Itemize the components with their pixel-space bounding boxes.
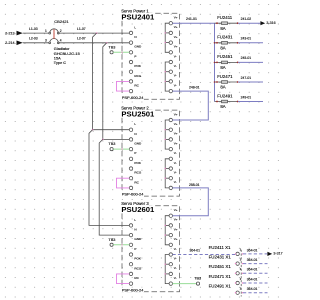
svg-text:N: N [134,228,136,232]
svg-text:2-213: 2-213 [5,31,14,35]
PSU2601 V- tie junctions [165,264,166,275]
svg-text:PSU2401: PSU2401 [121,13,155,22]
PSU2601 V+ tie junctions [165,225,166,236]
svg-text:8A: 8A [220,85,225,90]
PSU2401 pin V+ (4) [169,45,178,54]
circuit breaker CB2421 [49,19,70,43]
svg-text:POK: POK [134,64,141,68]
svg-text:FU2451 X1: FU2451 X1 [209,264,232,269]
svg-text:364-01: 364-01 [247,287,258,291]
PSU2501 pin V+ (2) [169,122,178,131]
svg-text:243-01: 243-01 [241,37,252,41]
wire 364-01 from FU2491 X1 [243,287,268,293]
PSU2601 pin V- (1) [169,247,177,256]
PSU2601 pin V- (4) [169,276,177,285]
node 2-214 source arrow [5,41,23,46]
fuse FU2411 8A [215,15,239,31]
svg-text:364-01: 364-01 [247,258,258,262]
terminal FU2471 X1 right connection point [242,282,243,283]
svg-text:V-: V- [174,247,177,251]
svg-text:CB2421: CB2421 [54,19,69,24]
value label PSP-600-24 [121,95,144,100]
svg-text:8A: 8A [220,65,225,70]
svg-text:FU2451: FU2451 [217,54,233,59]
svg-text:248-01: 248-01 [189,86,200,90]
FU2451 right terminal [237,62,239,64]
FU2431 left terminal [216,42,218,44]
PSU2501 V+ tie junctions [165,129,166,140]
svg-text:PSP-600-24: PSP-600-24 [122,95,145,100]
terminal strip X1 rail (dashed) [240,250,242,297]
terminal FU2451 X1 [209,264,242,275]
svg-text:FU2431: FU2431 [217,35,233,40]
wire 364-01 from FU2411 X1 [243,248,267,254]
jumper RCG to RC (PSU2601, magenta) [117,274,130,284]
terminal FU2411 X1 left connection point [235,253,236,254]
PSU2501 pin V- (4) [169,180,177,189]
wire 243-01 [238,37,263,43]
svg-text:V+: V+ [174,237,178,241]
svg-text:FU2431 X1: FU2431 X1 [209,255,232,260]
svg-text:PSP-600-24: PSP-600-24 [122,287,145,292]
wire PSU2601 V- to TB3 (green) [173,283,197,285]
svg-text:258-01: 258-01 [189,183,200,187]
svg-text:RC: RC [134,276,139,280]
breaker mechanical tie (red) [53,29,55,39]
svg-text:FU2491: FU2491 [217,93,233,98]
svg-text:V+: V+ [174,35,178,39]
wire L2 jog down to PSU2601 N [99,139,129,235]
svg-text:L2-07: L2-07 [77,37,86,41]
PSU2401 V- tie bus [165,62,169,91]
PSU2501 pin V- (3) [169,171,177,180]
terminal FU2431 X1 [209,255,242,266]
PSU2401 pin V- (2) [169,64,177,73]
PSU2401 pin V+ (2) [169,25,178,34]
junction green wire at enclosure [121,148,122,149]
FU2411 right terminal [237,22,239,24]
svg-text:P: P [134,151,136,155]
terminal FU2431 X1 left connection point [235,263,236,264]
svg-text:L: L [134,25,136,29]
terminal FU2491 X1 [209,284,242,295]
svg-text:364-01: 364-01 [247,277,258,281]
junction bus at FU2471 [214,81,216,83]
terminal FU2491 X1 right connection point [242,292,243,293]
PSU2401 pin V- (3) [169,74,177,83]
terminal FU2431 X1 right connection point [242,263,243,264]
PSU2601 pin V+ (2) [169,218,178,227]
wire TB3 to PSU2501 GND (green) [113,148,129,150]
terminal FU2411 X1 [209,245,242,256]
PSU2601 pin L [129,218,136,227]
svg-text:V+: V+ [174,16,178,20]
node 3-317 destination arrow [267,252,282,256]
svg-text:V+: V+ [174,112,178,116]
svg-text:L2-03: L2-03 [29,37,38,41]
svg-text:245-01: 245-01 [241,56,252,60]
PSU2401 pin RC [129,84,139,93]
terminal FU2451 X1 right connection point [242,273,243,274]
svg-text:364-01: 364-01 [247,268,258,272]
wire L1 vertical drop to PSU2501 [93,33,97,130]
FU2411 left terminal [216,22,218,24]
fuse supply bus [214,23,216,101]
fuse FU2471 8A [215,74,239,90]
PSU2601 pin V+ (3) [169,227,178,236]
PSU2601 pin V- (2) [169,257,177,266]
svg-text:V-: V- [174,266,177,270]
wire 364-01 from FU2431 X1 [243,258,268,264]
svg-text:FU2411 X1: FU2411 X1 [209,245,231,250]
svg-text:PSP-600-24: PSP-600-24 [122,192,145,197]
svg-text:241-01: 241-01 [186,17,197,21]
junction L2 branch [106,42,108,44]
svg-text:364-01: 364-01 [247,248,258,252]
PSU2601 pin RCG [129,266,142,275]
svg-text:V+: V+ [174,227,178,231]
svg-text:2: 2 [60,29,62,33]
svg-text:N: N [134,132,136,136]
wire L2-07 [58,37,129,43]
wire TB3 to PSU2401 GND (green) [113,51,129,53]
svg-text:V-: V- [174,74,177,78]
svg-text:V+: V+ [174,208,178,212]
PSU2501 pin RC [129,180,139,189]
PSU2501 pin V- (2) [169,161,177,170]
svg-text:RC: RC [134,180,139,184]
svg-text:L: L [134,122,136,126]
svg-text:364-01: 364-01 [190,249,201,253]
PSU2401 pin V+ (1) [169,16,178,25]
PSU2601 pin GND [129,237,142,246]
terminal FU2471 X1 left connection point [235,282,236,283]
svg-text:N: N [134,35,136,39]
PSU2501 pin RCG [129,171,142,180]
node 3-316 destination arrow [260,21,275,25]
svg-text:Type C: Type C [54,60,67,65]
terminal FU2411 X1 right connection point [242,253,243,254]
svg-text:V+: V+ [174,132,178,136]
power supply unit PSU2501 dashed enclosure [122,110,180,196]
wire 258-01 PSU2501 V- to PSU2601 V+ [173,183,209,216]
svg-text:4: 4 [60,39,62,43]
wire L1 branch to PSU2501 L [93,129,130,131]
PSU2501 pin N [129,132,136,141]
svg-text:TB3: TB3 [108,142,115,146]
fuse FU2451 8A [215,54,239,70]
junction L1 at PSU2501 [92,129,94,131]
FU2431 right terminal [237,42,239,44]
junction bus at FU2451 [214,62,216,64]
svg-text:V-: V- [174,257,177,261]
junction L1 branch [96,32,98,34]
svg-text:249-01: 249-01 [241,95,252,99]
terminal TB3 (PSU2601) [108,238,115,247]
PSU2501 pin GND [129,142,142,151]
breaker value label Gladiator GHCBU-2C-15 15A Type C [54,46,80,65]
svg-text:POK: POK [134,257,141,261]
node 2-213 source arrow [5,31,23,36]
PSU2401 V- tie junctions [165,71,166,82]
svg-text:V-: V- [174,276,177,280]
PSU2401 pin V+ (3) [169,35,178,44]
PSU2501 V- tie junctions [165,168,166,179]
FU2471 right terminal [237,81,239,83]
svg-text:3-317: 3-317 [273,252,282,256]
power supply unit PSU2601 dashed enclosure [122,206,180,292]
PSU2501 pin L [129,122,136,131]
wire 245-01 [238,56,263,62]
wire 241-01 [173,17,215,23]
PSU2401 pin POK [129,64,142,73]
terminal FU2471 X1 [209,274,242,285]
PSU2501 V- tie bus [165,159,169,188]
PSU2601 pin V- (3) [169,266,177,275]
junction L2 at PSU2501 [102,139,104,141]
FU2491 right terminal [237,101,239,103]
PSU2601 pin V+ (1) [169,208,178,217]
PSU2401 pin V- (1) [169,54,177,63]
svg-text:V-: V- [174,161,177,165]
svg-text:V+: V+ [174,141,178,145]
svg-text:TB3: TB3 [108,45,115,49]
PSU2501 pin V- (1) [169,151,177,160]
jumper RCG to RC (PSU2501, magenta) [117,178,130,188]
wire 247-01 [238,76,263,82]
svg-text:V+: V+ [174,218,178,222]
svg-text:V-: V- [174,54,177,58]
svg-text:8A: 8A [220,45,225,50]
wire L1-07 [58,27,129,33]
terminal FU2491 X1 left connection point [235,292,236,293]
wire TB3 to PSU2601 GND (green) [113,244,129,246]
fuse FU2491 8A [215,93,239,109]
svg-text:V-: V- [174,171,177,175]
svg-text:247-01: 247-01 [241,76,252,80]
svg-text:L1-03: L1-03 [29,27,38,31]
fuse FU2431 8A [215,35,239,51]
svg-text:3: 3 [45,39,47,43]
svg-text:TB3: TB3 [194,277,201,281]
wire L2-03 [23,37,50,43]
designator PSU2501 [121,110,156,117]
PSU2401 pin P [129,54,136,63]
wire 364-01 from FU2451 X1 [243,268,268,274]
svg-text:V+: V+ [174,25,178,29]
PSU2601 pin POK [129,257,142,266]
PSU2401 pin RCG [129,74,142,83]
wire L1 jog down to PSU2601 L [89,130,129,226]
value label PSP-600-24 [121,192,144,197]
wire 241-02 [238,17,260,23]
svg-text:GND: GND [134,45,142,49]
svg-text:241-02: 241-02 [241,17,252,21]
FU2491 left terminal [216,101,218,103]
junction bus at FU2431 [214,42,216,44]
svg-text:P: P [134,54,136,58]
svg-text:L: L [134,218,136,222]
PSU2401 V+ tie bus [165,23,169,52]
wire 248-01 PSU2401 V- to PSU2501 V+ [173,86,209,120]
svg-text:PSU2601: PSU2601 [121,205,155,214]
PSU2401 pin GND [129,45,142,54]
terminal FU2451 X1 left connection point [235,273,236,274]
PSU2501 pin P [129,151,136,160]
wire L2 vertical drop to PSU2501 [103,43,107,140]
svg-text:TB3: TB3 [108,238,115,242]
value label PSP-600-24 [121,288,144,293]
svg-text:RC: RC [134,84,139,88]
PSU2501 pin POK [129,161,142,170]
label Servo Power 1 [121,9,150,13]
PSU2501 pin V+ (1) [169,112,178,121]
svg-text:RCG: RCG [134,266,141,270]
power supply unit PSU2401 dashed enclosure [122,13,180,99]
wire 249-01 [238,95,263,101]
svg-text:PSU2501: PSU2501 [121,109,155,118]
wire 364-01 from FU2471 X1 [243,277,268,283]
svg-text:POK: POK [134,161,141,165]
designator PSU2401 [121,13,156,20]
svg-text:FU2471 X1: FU2471 X1 [209,274,232,279]
svg-text:GND: GND [134,142,142,146]
svg-text:2-214: 2-214 [5,41,14,45]
FU2451 left terminal [216,62,218,64]
PSU2601 V- tie bus [165,255,169,284]
wire L1-03 [23,27,50,33]
PSU2601 V+ tie bus [165,216,169,245]
svg-text:P: P [134,247,136,251]
svg-text:FU2491 X1: FU2491 X1 [209,284,232,289]
svg-text:RCG: RCG [134,171,141,175]
svg-text:V-: V- [174,64,177,68]
wire L2 branch to PSU2501 N [103,138,130,140]
PSU2501 pin V+ (3) [169,132,178,141]
svg-text:FU2471: FU2471 [217,74,233,79]
svg-text:L1-07: L1-07 [77,27,86,31]
svg-text:1: 1 [45,29,47,33]
wire 364-01 (PSU2601 V- to FU2411 X1) [173,249,237,255]
svg-text:RCG: RCG [134,74,141,78]
svg-text:8A: 8A [220,26,225,31]
terminal TB3 (PSU2601 V-) [194,277,201,286]
PSU2601 pin RC [129,276,139,285]
svg-text:V-: V- [174,180,177,184]
terminal TB3 (PSU2501) [108,142,115,151]
PSU2601 pin P [129,247,136,256]
svg-text:V+: V+ [174,45,178,49]
label Servo Power 3 [121,201,150,205]
designator PSU2601 [121,206,156,213]
FU2471 left terminal [216,81,218,83]
PSU2401 pin N [129,35,136,44]
PSU2601 pin N [129,228,136,237]
junction green wire at enclosure [121,244,122,245]
PSU2401 pin V- (4) [169,83,177,92]
terminal TB3 (PSU2401) [108,45,115,54]
label Servo Power 2 [121,106,150,110]
PSU2401 pin L [129,25,136,34]
PSU2401 V+ tie junctions [165,32,166,43]
svg-text:8A: 8A [220,104,225,109]
svg-text:FU2411: FU2411 [217,15,233,20]
junction green wire at enclosure [121,52,122,53]
svg-text:3-316: 3-316 [266,21,275,25]
jumper RCG to RC (PSU2401, magenta) [117,81,130,91]
svg-text:V+: V+ [174,122,178,126]
svg-text:GND: GND [134,237,142,241]
PSU2501 pin V+ (4) [169,141,178,150]
svg-text:V-: V- [174,151,177,155]
svg-text:V-: V- [174,83,177,87]
PSU2501 V+ tie bus [165,120,169,149]
PSU2601 pin V+ (4) [169,237,178,246]
